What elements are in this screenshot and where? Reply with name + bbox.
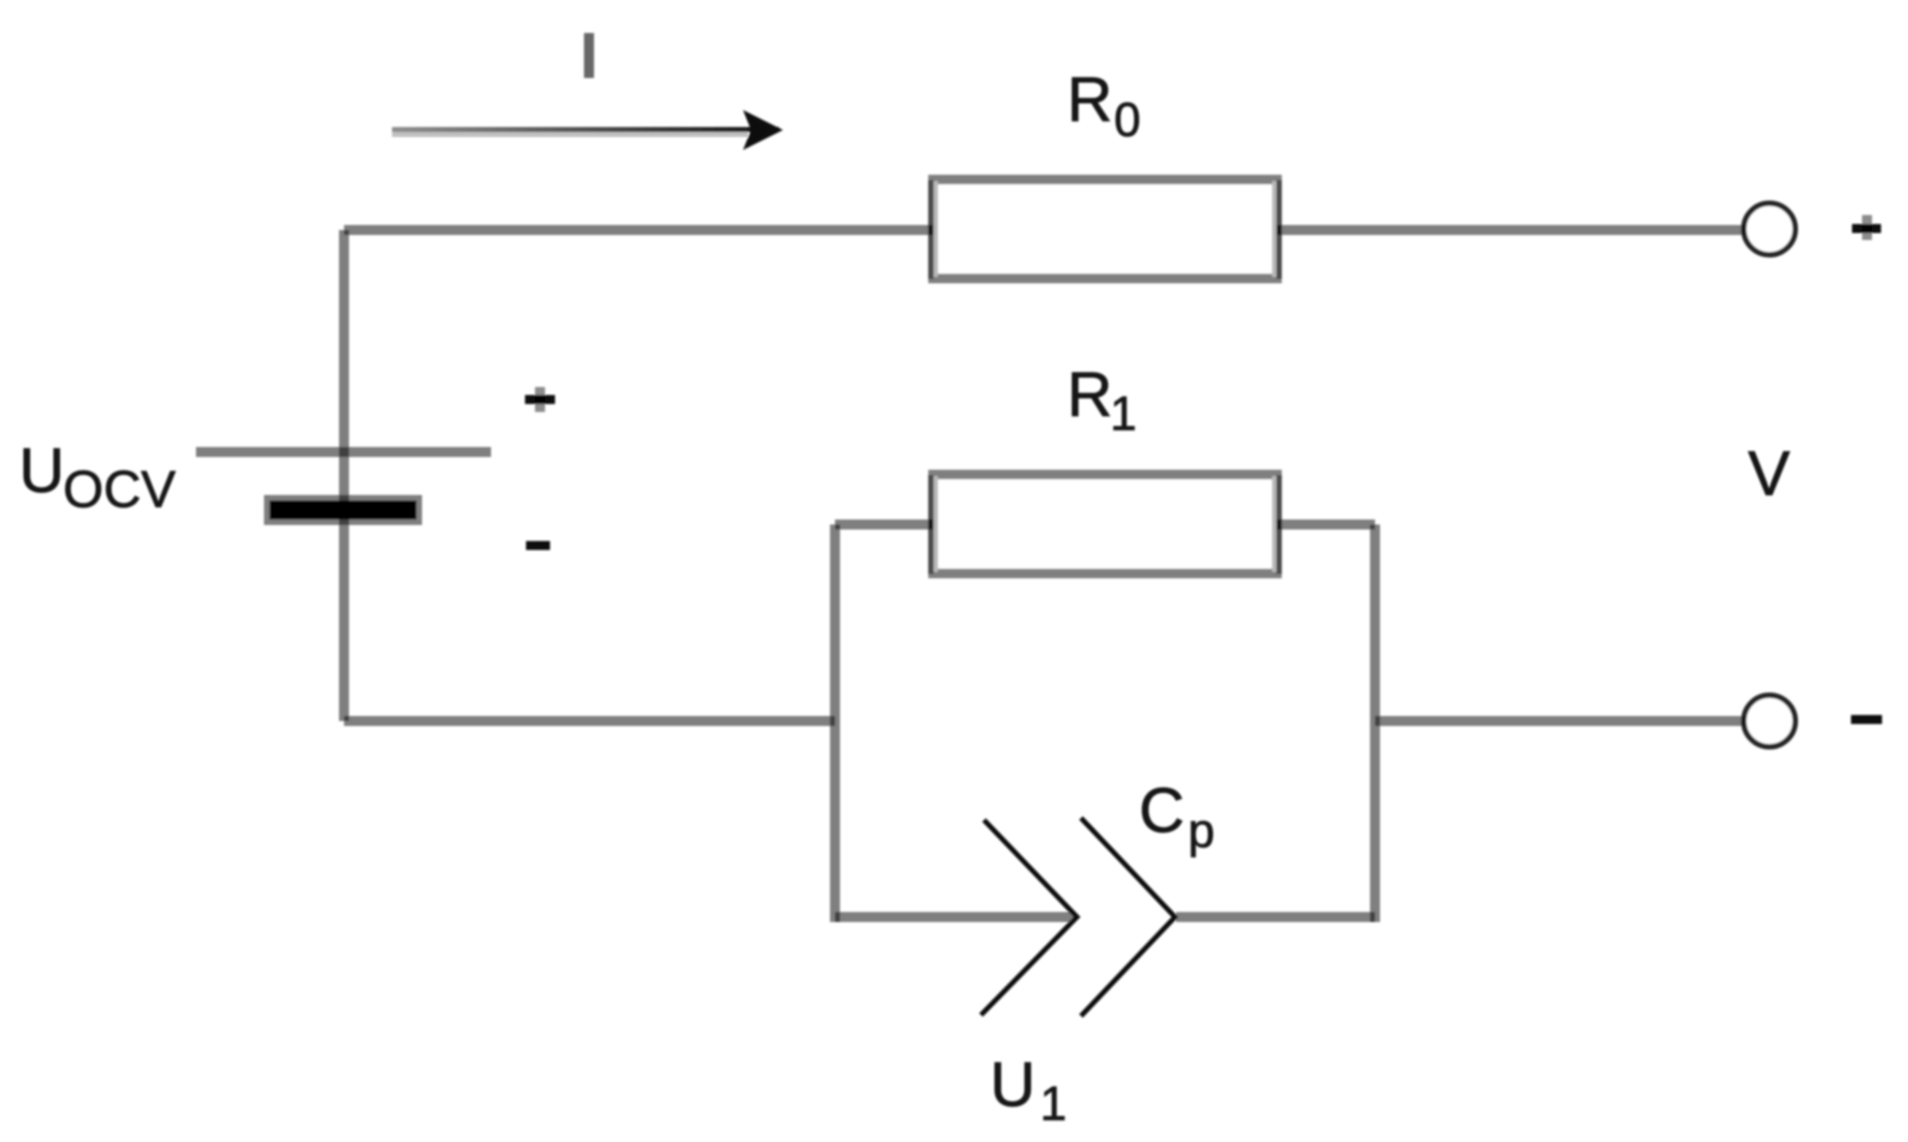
battery + sign	[525, 395, 555, 404]
current arrow shaft	[392, 127, 779, 132]
capacitor Cp right chevron plate	[1081, 818, 1175, 1016]
label - (right terminal)	[1851, 715, 1882, 724]
svg-text:C: C	[1139, 776, 1185, 846]
svg-text:0: 0	[1114, 94, 1141, 147]
resistor R0 right bevel	[1276, 180, 1281, 279]
wire: R1 left stub	[835, 520, 933, 530]
wire: capacitor bottom right segment	[1176, 912, 1375, 922]
svg-text:p: p	[1188, 805, 1215, 858]
resistor R1 body	[933, 475, 1277, 574]
svg-text:U: U	[19, 436, 65, 506]
svg-text:U: U	[990, 1050, 1036, 1120]
wire: battery - to parallel block (bottom horizontal)	[344, 716, 835, 726]
current arrow head	[743, 110, 783, 150]
wire: R0 right to + terminal	[1277, 225, 1745, 235]
resistor R1 left bevel	[928, 475, 933, 574]
battery U_OCV top plate (long)	[196, 447, 491, 457]
wire: right rail of RC block	[1370, 525, 1380, 923]
wire: left vertical through battery	[339, 230, 349, 721]
battery U_OCV bottom plate (short thick)	[267, 498, 420, 523]
wire: top horizontal (battery + to R0)	[344, 225, 933, 235]
svg-text:1: 1	[1110, 388, 1137, 441]
+ terminal circle	[1744, 203, 1796, 255]
wire: capacitor bottom left segment	[835, 912, 1076, 922]
wire: R1 right stub	[1277, 520, 1375, 530]
svg-text:V: V	[1748, 439, 1790, 509]
resistor R0 body	[933, 180, 1277, 279]
label + (right terminal)	[1852, 224, 1881, 233]
wire: left rail of RC block	[830, 525, 840, 923]
svg-text:R: R	[1067, 65, 1113, 135]
- terminal circle	[1744, 695, 1796, 747]
resistor R0 left bevel	[928, 180, 933, 279]
svg-text:R: R	[1067, 360, 1113, 430]
label I (current)	[584, 33, 594, 78]
battery - sign	[526, 541, 550, 550]
svg-text:1: 1	[1040, 1078, 1067, 1131]
capacitor Cp left chevron plate	[981, 820, 1077, 1015]
svg-text:OCV: OCV	[63, 461, 176, 519]
resistor R1 right bevel	[1276, 475, 1281, 574]
wire: right rail to - terminal	[1375, 716, 1745, 726]
